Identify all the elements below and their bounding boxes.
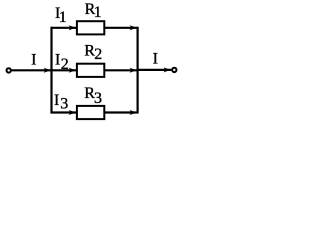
node: left bus (vertical wire): [50, 27, 52, 114]
svg-text:2: 2: [61, 56, 69, 73]
svg-text:I: I: [55, 51, 60, 68]
wire: output rail from right bus to right terminal: [138, 69, 172, 71]
svg-text:2: 2: [94, 46, 102, 63]
wire: middle branch left segment: [52, 69, 77, 71]
node: right bus (vertical wire): [137, 27, 139, 114]
svg-text:I: I: [31, 52, 36, 69]
resistor R1: [77, 21, 104, 34]
svg-text:I: I: [54, 92, 59, 109]
svg-text:3: 3: [60, 96, 68, 113]
wire: input rail from left terminal to left bus: [11, 69, 52, 71]
arrow into R1 (current I1): [69, 25, 76, 30]
wire: bottom branch right segment: [104, 111, 137, 113]
wire: top branch right segment: [104, 27, 137, 29]
arrow at right bus, top branch: [130, 25, 137, 30]
svg-text:I: I: [153, 51, 158, 68]
resistor R2: [77, 64, 104, 77]
resistor R3: [77, 106, 104, 119]
wire: middle branch right segment: [104, 69, 137, 71]
arrow on output wire (current I): [164, 67, 171, 72]
arrow at right bus, bottom branch: [130, 110, 137, 115]
svg-text:1: 1: [94, 4, 102, 21]
wire: bottom branch left segment: [51, 111, 77, 113]
output terminal (right circle): [172, 68, 176, 72]
arrow at right bus, middle branch: [130, 68, 137, 73]
input terminal (left circle): [7, 68, 11, 72]
arrow into R3 (current I3): [69, 110, 76, 115]
arrow on input wire (current I): [44, 68, 51, 73]
svg-text:1: 1: [59, 9, 67, 26]
wire: top branch left segment: [51, 27, 77, 29]
svg-text:3: 3: [94, 90, 102, 107]
arrow into R2 (current I2): [69, 68, 76, 73]
